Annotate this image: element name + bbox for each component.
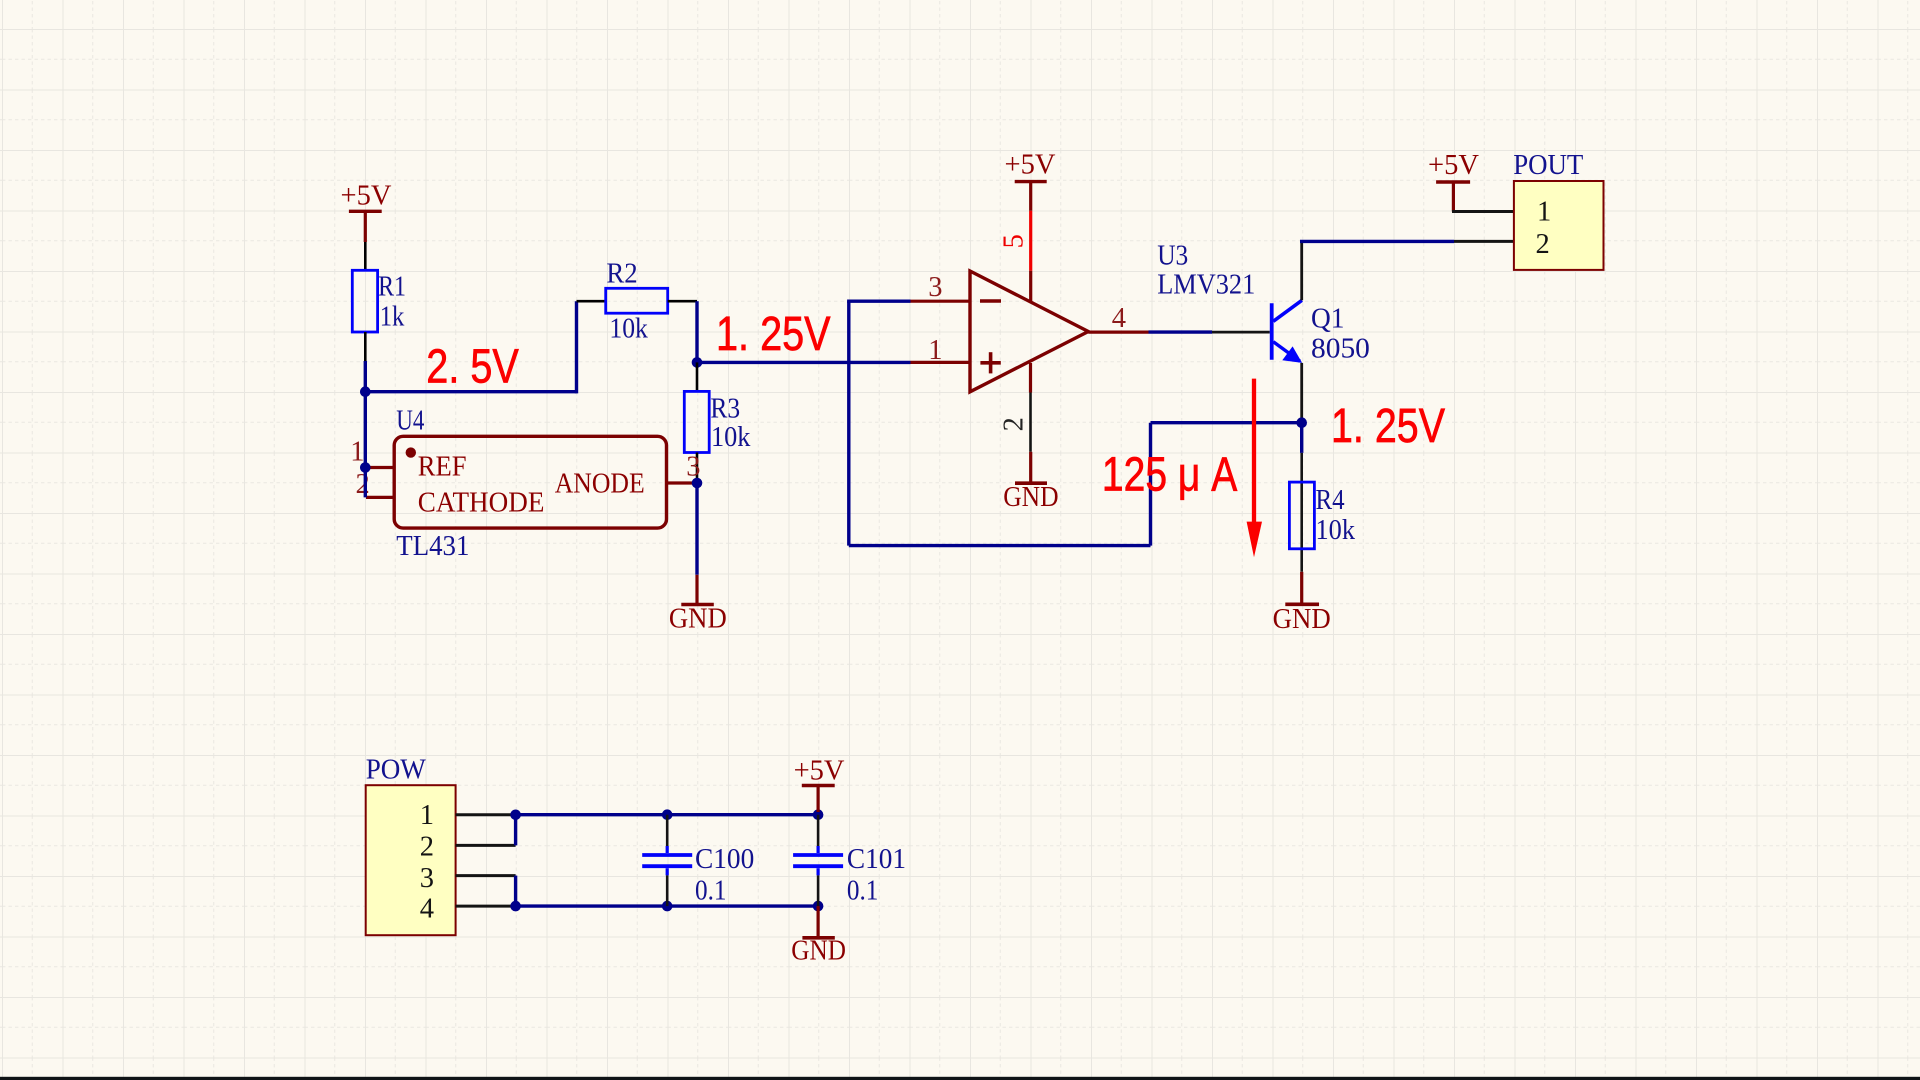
svg-text:TL431: TL431 [396, 531, 469, 562]
resistor R2 [606, 288, 668, 313]
svg-text:1. 25V: 1. 25V [1331, 399, 1446, 453]
U4 pin-1 dot marker [406, 447, 416, 457]
svg-text:5: 5 [999, 234, 1030, 248]
connector POUT pin 2 [1454, 240, 1514, 243]
svg-text:3: 3 [928, 272, 942, 303]
junction node 1.25V [692, 357, 703, 368]
U4 CATHODE pin [366, 496, 394, 499]
capacitor C101 pin 2 [817, 875, 820, 906]
svg-text:1: 1 [928, 335, 942, 366]
power +5V symbol (POUT) [1428, 150, 1479, 212]
svg-text:+5V: +5V [341, 181, 392, 212]
junction emitter node 1.25V [1296, 417, 1307, 428]
svg-text:125 μ A: 125 μ A [1102, 448, 1237, 501]
svg-text:2: 2 [999, 417, 1030, 431]
wire up to R2 [575, 301, 578, 393]
U4 REF pin [366, 466, 394, 469]
wire pin2 to GND (black) [1029, 393, 1032, 452]
connector POW pin 3 [456, 874, 516, 877]
resistor R3 [684, 391, 709, 452]
svg-text:R4: R4 [1316, 485, 1345, 516]
svg-text:GND: GND [791, 935, 846, 966]
junction anode node [692, 478, 703, 489]
feedback wire to emitter node [1151, 421, 1302, 424]
svg-text:CATHODE: CATHODE [418, 487, 545, 518]
svg-text:3: 3 [686, 451, 700, 482]
svg-text:0.1: 0.1 [695, 875, 727, 906]
svg-text:GND: GND [1003, 482, 1058, 513]
wire to op-amp -input [847, 300, 910, 303]
op-amp plus marker [980, 352, 1000, 373]
op-amp U3 pin 3 (-) [911, 300, 971, 303]
ground GND (rail) [791, 906, 846, 966]
wire through R4 to GND (black) [1300, 453, 1303, 572]
svg-text:1: 1 [1537, 197, 1551, 228]
svg-text:C101: C101 [847, 844, 906, 875]
svg-text:10k: 10k [609, 314, 648, 345]
wire GND rail [516, 904, 819, 907]
svg-text:+5V: +5V [794, 755, 845, 786]
svg-text:U4: U4 [396, 406, 424, 437]
power +5V symbol (rail) [794, 755, 845, 812]
IC U4 TL431 body [394, 436, 666, 528]
resistor R3 pin 1 [696, 362, 699, 391]
svg-text:+5V: +5V [1428, 150, 1479, 181]
svg-text:LMV321: LMV321 [1157, 270, 1255, 301]
svg-text:1: 1 [350, 437, 364, 468]
power +5V symbol (op-amp) [1005, 150, 1056, 211]
capacitor C100 pin 1 [666, 815, 669, 846]
svg-text:1. 25V: 1. 25V [716, 308, 831, 361]
connector POUT pin 1 [1452, 210, 1514, 213]
feedback wire vertical up [1149, 423, 1152, 546]
svg-text:R3: R3 [710, 393, 740, 424]
capacitor C100 pin 2 [666, 875, 669, 906]
U4 anode pin [667, 481, 694, 484]
svg-text:2: 2 [1536, 229, 1550, 260]
resistor R1 pin 2 [364, 332, 367, 361]
op-amp U3 triangle [970, 271, 1088, 392]
op-amp U3 pin 2 (gnd) [1029, 363, 1032, 393]
wire R2 down to node 1.25V [695, 301, 698, 362]
wire R1 to node 2.5V [364, 361, 367, 393]
svg-text:R2: R2 [606, 259, 637, 290]
svg-text:Q1: Q1 [1311, 303, 1345, 334]
wire anode to GND [695, 483, 698, 575]
svg-text:1k: 1k [380, 302, 405, 333]
connector POUT body [1514, 181, 1604, 270]
capacitor C100 [642, 846, 692, 875]
transistor Q1 base pin [1212, 331, 1270, 334]
svg-text:4: 4 [1112, 303, 1126, 334]
capacitor C101 [793, 846, 843, 875]
svg-text:GND: GND [1273, 604, 1331, 635]
op-amp U3 pin 1 (+) [911, 361, 971, 364]
svg-text:R1: R1 [378, 272, 406, 303]
connector POW pin 4 [456, 905, 516, 908]
junction C101 top [813, 809, 824, 820]
wire U4 ref/cathode tie [364, 392, 367, 498]
junction node 2.5V [360, 386, 371, 397]
svg-text:2: 2 [420, 832, 434, 863]
junction C100 top [662, 809, 673, 820]
resistor R2 pin 1 [577, 300, 606, 303]
svg-text:8050: 8050 [1311, 333, 1370, 364]
junction C101 bottom [813, 901, 824, 912]
svg-text:GND: GND [669, 604, 727, 635]
capacitor C101 pin 1 [817, 815, 820, 846]
svg-text:10k: 10k [711, 422, 751, 453]
bottom frame bar [0, 1077, 1920, 1080]
junction at REF pin [360, 462, 371, 473]
svg-text:2: 2 [356, 469, 370, 500]
wire pin3 down to pin4 [514, 876, 517, 907]
resistor R2 pin 2 [668, 300, 697, 303]
svg-text:POW: POW [366, 755, 426, 786]
red current arrow [1247, 379, 1262, 558]
wire +5V to op-amp pin 5 (red) [1029, 211, 1032, 271]
svg-text:3: 3 [420, 863, 434, 894]
ground GND (op-amp) [1003, 452, 1058, 513]
junction POW pin1 [510, 810, 521, 821]
junction POW pin4 [510, 901, 521, 912]
feedback wire bottom horizontal [849, 544, 1151, 547]
ground GND (below R3) [669, 575, 727, 635]
ground GND (below R4) [1273, 572, 1331, 635]
wire op-amp out [1149, 330, 1213, 333]
resistor R1 [352, 270, 377, 332]
junction C100 bottom [662, 901, 673, 912]
op-amp minus marker [980, 299, 1001, 303]
wire 2.5V horizontal [365, 390, 576, 393]
connector POW pin 2 [456, 844, 516, 847]
wire +5V rail [516, 813, 819, 816]
svg-text:C100: C100 [695, 844, 754, 875]
op-amp U3 pin 4 (out) [1088, 331, 1148, 334]
svg-text:U3: U3 [1157, 241, 1188, 272]
connector POW pin 1 [456, 813, 516, 816]
svg-text:1: 1 [420, 800, 434, 831]
wire pin2 up to pin1 [514, 815, 517, 846]
resistor R3 pin 2 [696, 453, 699, 484]
wire emitter node down [1300, 423, 1303, 453]
transistor Q1 emitter pin [1300, 363, 1303, 419]
power +5V symbol (R1 top) [341, 181, 392, 243]
svg-text:REF: REF [418, 452, 467, 483]
op-amp U3 pin 5 [1029, 271, 1032, 301]
svg-text:4: 4 [420, 894, 434, 925]
wire 1.25V to op-amp +input [697, 361, 911, 364]
svg-text:POUT: POUT [1513, 150, 1583, 181]
svg-text:+5V: +5V [1005, 150, 1056, 181]
resistor R4 [1289, 482, 1314, 549]
resistor R1 pin 1 [364, 242, 367, 270]
transistor Q1 [1272, 300, 1302, 363]
svg-text:ANODE: ANODE [555, 469, 645, 500]
connector POW body [366, 785, 456, 935]
svg-text:2. 5V: 2. 5V [426, 341, 519, 394]
svg-text:0.1: 0.1 [847, 875, 879, 906]
feedback wire from -input corner down [847, 301, 850, 545]
transistor Q1 collector pin [1300, 241, 1303, 300]
wire collector to POUT [1300, 240, 1454, 243]
svg-text:10k: 10k [1316, 515, 1356, 546]
